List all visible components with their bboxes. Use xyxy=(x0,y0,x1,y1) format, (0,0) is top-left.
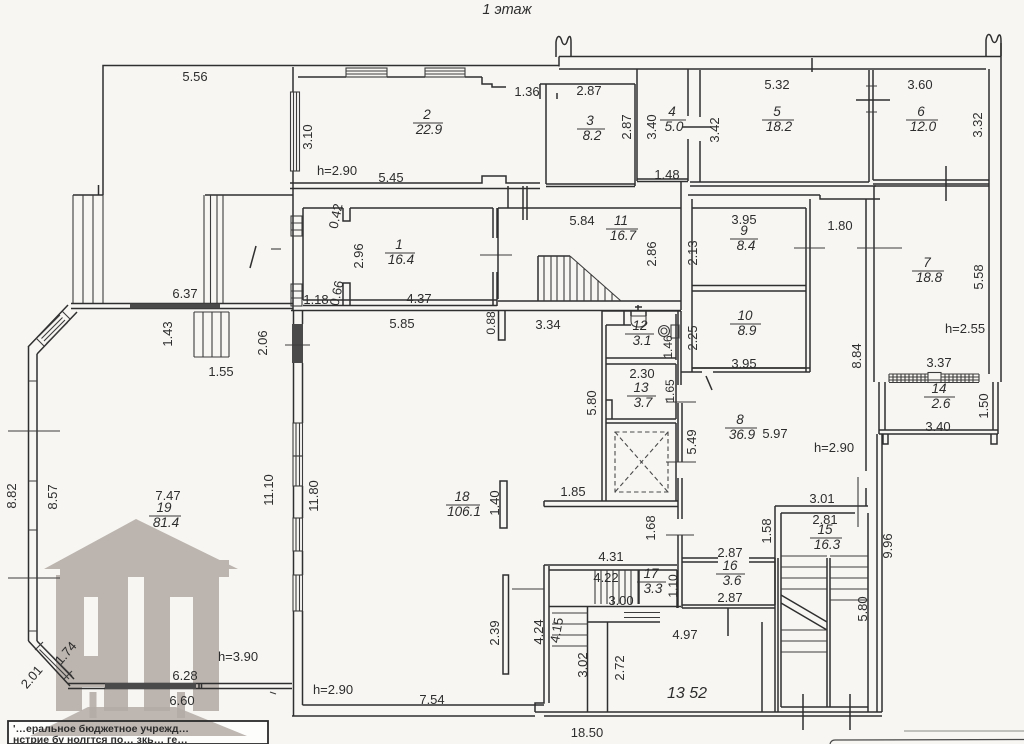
svg-text:8: 8 xyxy=(736,412,744,427)
svg-text:6.28: 6.28 xyxy=(172,668,197,683)
svg-text:5.0: 5.0 xyxy=(665,119,684,134)
svg-text:81.4: 81.4 xyxy=(153,515,179,530)
svg-text:3.1: 3.1 xyxy=(633,333,652,348)
svg-text:3.95: 3.95 xyxy=(731,356,756,371)
svg-text:8.9: 8.9 xyxy=(738,323,757,338)
svg-text:h=2.55: h=2.55 xyxy=(945,321,985,336)
svg-text:h=2.90: h=2.90 xyxy=(317,163,357,178)
svg-text:8.57: 8.57 xyxy=(45,484,60,509)
svg-text:7.54: 7.54 xyxy=(419,692,444,707)
svg-text:1 этаж: 1 этаж xyxy=(482,2,532,18)
svg-text:8.82: 8.82 xyxy=(4,483,19,508)
svg-text:1.40: 1.40 xyxy=(487,490,502,515)
svg-text:2.6: 2.6 xyxy=(931,396,951,411)
svg-text:18.8: 18.8 xyxy=(916,270,943,285)
svg-text:4.22: 4.22 xyxy=(593,570,618,585)
svg-text:11.10: 11.10 xyxy=(261,474,276,506)
svg-text:12.0: 12.0 xyxy=(910,119,937,134)
svg-text:3.10: 3.10 xyxy=(300,124,315,149)
svg-text:18: 18 xyxy=(454,489,470,504)
svg-text:2.13: 2.13 xyxy=(685,240,700,265)
svg-text:1.85: 1.85 xyxy=(560,484,585,499)
svg-text:9: 9 xyxy=(740,223,748,238)
svg-text:6: 6 xyxy=(917,104,925,119)
svg-text:5.49: 5.49 xyxy=(684,429,699,454)
svg-text:2.96: 2.96 xyxy=(351,243,366,268)
svg-text:1.68: 1.68 xyxy=(643,515,658,540)
svg-text:8.4: 8.4 xyxy=(737,238,756,253)
svg-text:3.37: 3.37 xyxy=(926,355,951,370)
svg-text:1.46: 1.46 xyxy=(661,335,675,359)
svg-text:3.00: 3.00 xyxy=(608,593,633,608)
svg-text:2.39: 2.39 xyxy=(487,620,502,645)
svg-text:0.42: 0.42 xyxy=(326,202,346,230)
svg-text:1.55: 1.55 xyxy=(208,364,233,379)
svg-text:17: 17 xyxy=(643,566,659,581)
svg-text:3.3: 3.3 xyxy=(644,581,663,596)
svg-text:3.60: 3.60 xyxy=(907,77,932,92)
svg-text:22.9: 22.9 xyxy=(415,122,443,137)
svg-text:4.97: 4.97 xyxy=(672,627,697,642)
svg-text:16: 16 xyxy=(722,558,738,573)
svg-text:3.34: 3.34 xyxy=(535,317,560,332)
svg-text:3.01: 3.01 xyxy=(809,491,834,506)
svg-text:2.87: 2.87 xyxy=(576,83,601,98)
svg-text:106.1: 106.1 xyxy=(447,504,481,519)
svg-text:2.30: 2.30 xyxy=(629,366,654,381)
svg-text:6.60: 6.60 xyxy=(169,693,194,708)
svg-text:4.15: 4.15 xyxy=(547,616,566,644)
svg-text:3.7: 3.7 xyxy=(634,395,653,410)
svg-text:нстрие бу нолгтся по… зкь… г: нстрие бу нолгтся по… зкь… ге… xyxy=(13,734,188,744)
svg-text:2.87: 2.87 xyxy=(717,590,742,605)
svg-text:5.84: 5.84 xyxy=(569,213,594,228)
svg-text:h=2.90: h=2.90 xyxy=(313,682,353,697)
svg-text:14: 14 xyxy=(931,381,946,396)
svg-text:7: 7 xyxy=(923,255,931,270)
svg-text:18.2: 18.2 xyxy=(766,119,793,134)
svg-text:2: 2 xyxy=(422,107,431,122)
svg-text:16.7: 16.7 xyxy=(610,228,637,243)
svg-text:4.37: 4.37 xyxy=(406,291,431,306)
svg-text:5.80: 5.80 xyxy=(855,596,870,621)
svg-text:5.45: 5.45 xyxy=(378,170,403,185)
svg-text:5.97: 5.97 xyxy=(762,426,787,441)
svg-text:1.58: 1.58 xyxy=(759,518,774,543)
svg-text:11: 11 xyxy=(614,213,628,228)
svg-text:5.32: 5.32 xyxy=(764,77,789,92)
svg-text:8.2: 8.2 xyxy=(583,128,602,143)
svg-text:5: 5 xyxy=(773,104,781,119)
svg-text:13 52: 13 52 xyxy=(667,685,707,702)
svg-text:13: 13 xyxy=(633,380,649,395)
svg-text:2.86: 2.86 xyxy=(644,241,659,266)
svg-text:4.31: 4.31 xyxy=(598,549,623,564)
svg-text:2.72: 2.72 xyxy=(612,655,627,680)
svg-text:1: 1 xyxy=(395,237,403,252)
svg-text:16.4: 16.4 xyxy=(388,252,414,267)
svg-text:1.48: 1.48 xyxy=(654,167,679,182)
svg-text:16.3: 16.3 xyxy=(814,537,841,552)
svg-text:0.88: 0.88 xyxy=(484,311,498,335)
svg-text:11.80: 11.80 xyxy=(306,480,321,512)
svg-text:18.50: 18.50 xyxy=(571,725,604,740)
svg-text:8.84: 8.84 xyxy=(849,343,864,368)
svg-text:1.36: 1.36 xyxy=(514,84,539,99)
svg-text:3.6: 3.6 xyxy=(723,573,742,588)
svg-text:2.06: 2.06 xyxy=(255,330,270,355)
svg-text:3: 3 xyxy=(586,113,594,128)
svg-text:3.02: 3.02 xyxy=(575,652,590,677)
svg-text:9.96: 9.96 xyxy=(880,533,895,558)
svg-text:h=3.90: h=3.90 xyxy=(218,649,258,664)
svg-text:4.24: 4.24 xyxy=(531,619,546,644)
svg-text:1.65: 1.65 xyxy=(663,379,677,403)
svg-text:3.32: 3.32 xyxy=(970,112,985,137)
svg-text:15: 15 xyxy=(817,522,833,537)
svg-text:5.56: 5.56 xyxy=(182,69,207,84)
svg-text:10: 10 xyxy=(737,308,753,323)
svg-text:5.85: 5.85 xyxy=(389,316,414,331)
svg-text:6.37: 6.37 xyxy=(172,286,197,301)
svg-text:5.58: 5.58 xyxy=(971,264,986,289)
svg-text:2.25: 2.25 xyxy=(685,325,700,350)
svg-text:36.9: 36.9 xyxy=(729,427,756,442)
svg-text:1.50: 1.50 xyxy=(976,393,991,418)
svg-text:2.87: 2.87 xyxy=(619,114,634,139)
svg-text:1.80: 1.80 xyxy=(827,218,852,233)
svg-text:3.42: 3.42 xyxy=(707,117,722,142)
svg-text:5.80: 5.80 xyxy=(584,390,599,415)
svg-text:1.10: 1.10 xyxy=(666,574,680,598)
svg-text:1.18: 1.18 xyxy=(303,292,328,307)
svg-text:3.40: 3.40 xyxy=(925,419,950,434)
svg-text:1.43: 1.43 xyxy=(160,321,175,346)
svg-text:h=2.90: h=2.90 xyxy=(814,440,854,455)
svg-text:4: 4 xyxy=(668,104,676,119)
svg-text:3.40: 3.40 xyxy=(644,114,659,139)
svg-text:19: 19 xyxy=(156,500,172,515)
svg-text:2.01: 2.01 xyxy=(18,663,46,692)
svg-text:12: 12 xyxy=(632,318,648,333)
